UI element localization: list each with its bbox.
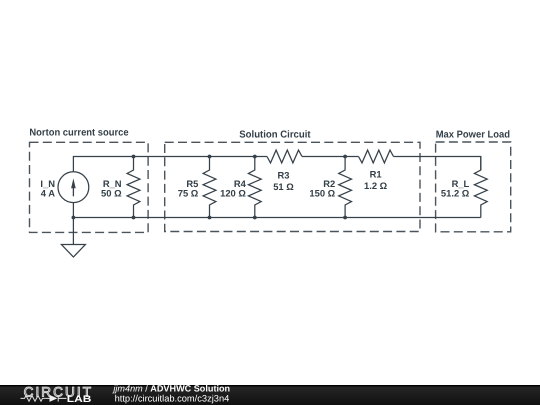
node: R2 top junction [343, 155, 347, 159]
node: R_N bottom junction [132, 216, 136, 220]
dashed box: Norton current source [30, 142, 149, 232]
svg-text:50 Ω: 50 Ω [101, 187, 122, 198]
wire bottom rail (ground node) [73, 217, 480, 219]
node: R_N top junction [132, 155, 136, 159]
resistor R_L [474, 157, 487, 218]
resistor R1 [359, 150, 394, 163]
svg-text:75 Ω: 75 Ω [178, 187, 199, 198]
node: R4 top junction [253, 155, 257, 159]
CircuitLab logo resistor-diode glyph [21, 395, 67, 401]
svg-text:4 A: 4 A [41, 187, 55, 198]
resistor R2 [339, 157, 352, 218]
svg-text:Max Power Load: Max Power Load [436, 130, 510, 141]
svg-text:51 Ω: 51 Ω [273, 181, 294, 192]
dashed box: Max Power Load [436, 142, 511, 232]
svg-text:jjm4nm / ADVHWC Solution: jjm4nm / ADVHWC Solution [111, 383, 230, 393]
svg-text:http://circuitlab.com/c3zj3n4: http://circuitlab.com/c3zj3n4 [115, 393, 230, 403]
dashed box: Solution Circuit [165, 142, 420, 231]
svg-text:R3: R3 [278, 170, 290, 181]
resistor R_N [127, 157, 140, 218]
node: R2 bottom junction [343, 216, 347, 220]
svg-text:51.2 Ω: 51.2 Ω [441, 187, 470, 198]
footer bar [0, 385, 540, 405]
wire top rail mid (R3 to R1) [302, 156, 359, 158]
resistor R4 [248, 157, 261, 218]
node: R4 bottom junction [253, 216, 257, 220]
resistor R5 [203, 157, 216, 218]
resistor R3 [267, 150, 302, 163]
wire top rail right (R1 to R_L) [394, 157, 481, 171]
svg-text:Solution Circuit: Solution Circuit [239, 130, 311, 141]
svg-text:LAB: LAB [67, 394, 92, 405]
node: source bottom junction [72, 216, 76, 220]
current source I1 circle [58, 172, 89, 203]
svg-text:Norton current source: Norton current source [29, 128, 129, 139]
current source arrow [71, 178, 76, 196]
svg-text:150 Ω: 150 Ω [309, 187, 335, 198]
wire ground stub [72, 203, 74, 245]
wire top rail left (node A: source to R3) [73, 157, 267, 172]
svg-text:R1: R1 [370, 169, 382, 180]
node: R5 top junction [208, 155, 212, 159]
node: R5 bottom junction [208, 216, 212, 220]
svg-text:1.2 Ω: 1.2 Ω [364, 180, 388, 191]
svg-text:120 Ω: 120 Ω [220, 187, 246, 198]
ground [61, 245, 85, 258]
